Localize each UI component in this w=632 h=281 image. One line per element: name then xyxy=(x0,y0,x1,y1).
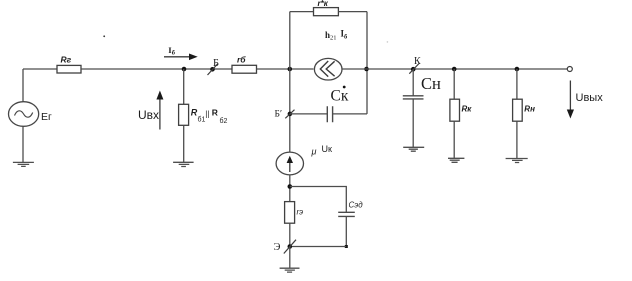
wire: Ced bottom to E wire xyxy=(345,216,347,246)
svg-text:h21Iб: h21Iб xyxy=(325,29,348,42)
svg-text:||: || xyxy=(205,110,209,119)
wire: re to node E xyxy=(289,223,291,246)
wire: main bus left corner to Rg xyxy=(23,68,57,70)
svg-text:rб: rб xyxy=(237,55,246,65)
svg-text:Uвх: Uвх xyxy=(138,108,159,122)
arrow Uvyx (output voltage) xyxy=(569,81,571,111)
resistor Rn (box) xyxy=(513,99,523,121)
svg-text:r*к: r*к xyxy=(318,0,329,8)
wire: Rn to ground xyxy=(516,121,518,158)
svg-text:Ск: Ск xyxy=(331,88,349,105)
svg-text:Iб: Iб xyxy=(168,45,175,56)
wire: E node to Ced bottom xyxy=(290,246,347,248)
svg-text:Eг: Eг xyxy=(41,111,52,123)
resistor r*k (box) xyxy=(314,8,339,16)
stray speck xyxy=(103,35,105,37)
junction node (emitter branch split) xyxy=(288,184,293,189)
junction square (Ced bottom corner) xyxy=(345,245,348,248)
node B' (internal base) with tick xyxy=(289,69,291,153)
svg-text:Б′: Б′ xyxy=(275,109,283,119)
resistor Rg (box) xyxy=(57,65,81,73)
ground (under Cn) xyxy=(403,147,424,151)
wire: Rg to node junction and node B xyxy=(81,68,232,70)
capacitor Cn (plates) xyxy=(403,96,424,99)
svg-text:rэ: rэ xyxy=(297,208,304,217)
svg-text:R: R xyxy=(212,108,218,118)
svg-text:б1: б1 xyxy=(198,115,206,123)
ground (under Rk) xyxy=(448,158,464,162)
capacitor Ck (plates) xyxy=(290,113,327,115)
svg-text:Uвых: Uвых xyxy=(576,92,604,104)
source uUk (ellipse with up arrow) xyxy=(276,152,303,175)
terminal (output open circle) xyxy=(567,67,572,72)
svg-text:Rг: Rг xyxy=(61,55,72,65)
svg-text:Э: Э xyxy=(274,242,281,253)
wire: Cn to ground xyxy=(412,99,414,147)
current source h21Ib (ellipse with double chevron) xyxy=(314,58,342,80)
wire: down to Rn xyxy=(516,69,518,99)
svg-text:Rк: Rк xyxy=(462,104,473,113)
svg-text:Rн: Rн xyxy=(524,104,535,113)
svg-text:Uк: Uк xyxy=(322,144,332,154)
node K (collector) with tick xyxy=(411,67,416,72)
svg-text:К: К xyxy=(414,56,421,67)
wire: feedback loop left vertical xyxy=(289,12,291,69)
ground (under Eg) xyxy=(13,162,34,166)
resistor re (box) xyxy=(285,202,295,224)
svg-text:Сн: Сн xyxy=(421,74,441,93)
svg-text:Б: Б xyxy=(213,58,219,69)
wire: source bottom to emitter junction xyxy=(289,175,291,202)
wire: feedback loop right vertical down to Ck level xyxy=(366,12,368,114)
wire: down to Rk xyxy=(453,69,455,99)
ground (under Rn) xyxy=(506,159,528,163)
resistor rb (box) xyxy=(232,65,257,73)
node E (emitter) with tick xyxy=(288,244,293,249)
resistor Rk (box) xyxy=(450,99,460,121)
arrow Uvx (input voltage) xyxy=(159,99,161,130)
wire: junction to Ced top xyxy=(290,187,347,213)
wire: feedback loop top right segment xyxy=(338,11,367,13)
source Eg (sine voltage source circle) xyxy=(9,102,39,127)
wire: rb to node B' column xyxy=(257,68,314,70)
junction node at collector side of loop xyxy=(364,67,369,72)
capacitor Ced (plates) xyxy=(338,212,355,216)
wire: K down to Cn xyxy=(412,69,414,96)
junction node at Rk xyxy=(452,67,457,72)
faint speck xyxy=(387,41,389,43)
wire: Rk to ground xyxy=(453,121,455,158)
resistor Rb1||Rb2 (box) xyxy=(179,104,189,125)
svg-text:μ: μ xyxy=(311,147,317,157)
wire: feedback loop top left segment xyxy=(290,11,314,13)
svg-text:б2: б2 xyxy=(220,117,228,125)
arrow Ib (current direction) xyxy=(164,56,189,58)
ground (under E) xyxy=(280,268,300,272)
node B (base) with tick xyxy=(210,67,215,72)
wire: Eg bottom to ground xyxy=(22,126,24,162)
wire: Rb1||Rb2 to ground xyxy=(183,125,185,162)
wire: source to K node and output xyxy=(342,68,567,70)
junction node B' top (main wire) xyxy=(288,67,293,72)
svg-text:Сэд: Сэд xyxy=(349,201,364,210)
wire: vertical from corner down to Eg source xyxy=(22,69,24,102)
wire: E to ground xyxy=(289,247,291,269)
junction node (input divider tap) xyxy=(182,67,187,72)
ground (under Rb1||Rb2) xyxy=(173,162,194,166)
wire: junction down to Rb1||Rb2 xyxy=(183,69,185,104)
junction node at Rn xyxy=(515,67,520,72)
